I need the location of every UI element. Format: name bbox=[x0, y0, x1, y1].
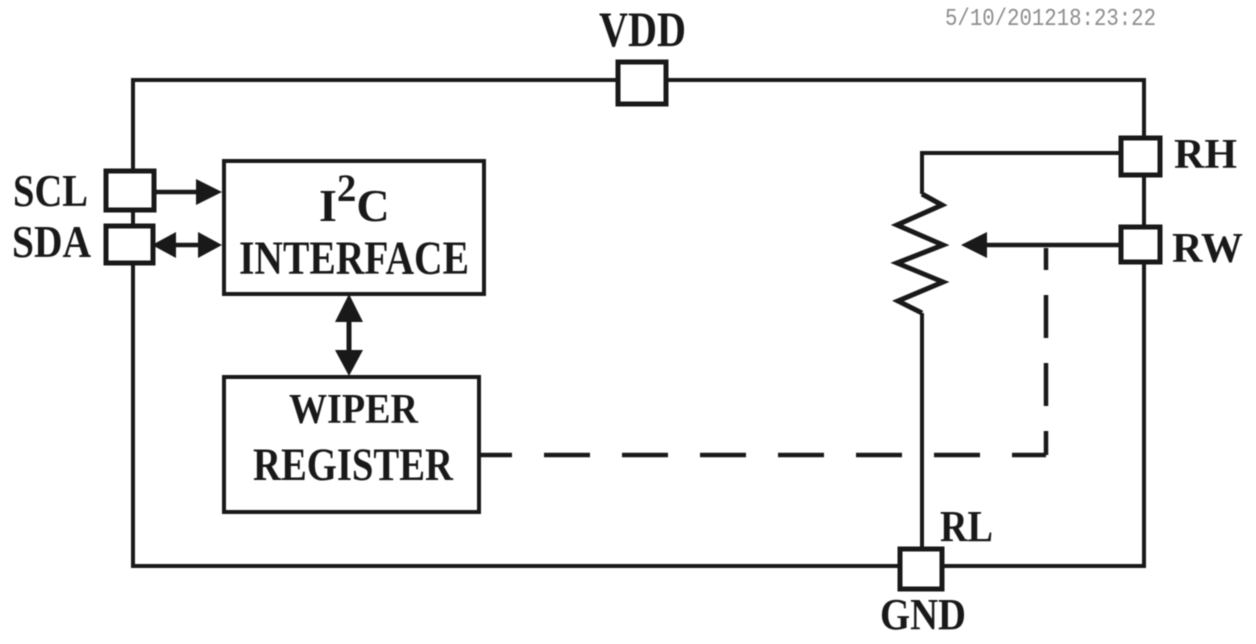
wire: bottom border right of GND pin bbox=[942, 564, 1146, 568]
svg-text:SDA: SDA bbox=[12, 216, 91, 267]
wire: right border below RW pin bbox=[1142, 262, 1146, 566]
wire: dashed control line to wiper (vertical) bbox=[1044, 248, 1049, 455]
svg-text:RH: RH bbox=[1174, 132, 1237, 178]
wire: left border between SCL and SDA pins bbox=[131, 210, 135, 226]
resistor R1 (potentiometer element, zigzag) bbox=[897, 194, 943, 313]
wire: bottom border left of GND pin bbox=[131, 564, 900, 568]
pin VDD (square pad) bbox=[618, 62, 666, 104]
pin GND (square pad) bbox=[900, 549, 942, 589]
wire: I2C interface to wiper register (double arrow) bbox=[347, 312, 352, 358]
wire: RH pin to resistor top bbox=[922, 151, 1121, 155]
wire: resistor top lead bbox=[920, 151, 924, 194]
wire: right border between RH and RW pins bbox=[1142, 175, 1146, 227]
wire: left border above SCL pin bbox=[131, 78, 135, 171]
svg-text:RW: RW bbox=[1172, 226, 1243, 272]
svg-text:GND: GND bbox=[880, 590, 966, 639]
wire: dashed control line from wiper register (horizontal) bbox=[481, 453, 1046, 458]
wire: top border left of VDD pin bbox=[133, 78, 618, 82]
wire: SDA pin to I2C interface (double arrow) bbox=[170, 243, 206, 248]
svg-text:5/10/201218:23:22: 5/10/201218:23:22 bbox=[945, 6, 1156, 33]
wire: resistor bottom lead to GND pin (node RL) bbox=[920, 313, 924, 549]
svg-text:WIPER: WIPER bbox=[289, 387, 419, 433]
svg-text:INTERFACE: INTERFACE bbox=[239, 232, 469, 285]
block U1: I2C interface box bbox=[224, 161, 484, 294]
svg-text:RL: RL bbox=[940, 502, 993, 551]
wire: right border above RH pin bbox=[1142, 78, 1146, 138]
pin RH (square pad) bbox=[1121, 138, 1160, 175]
svg-text:VDD: VDD bbox=[599, 1, 686, 57]
wire: left border below SDA pin bbox=[131, 263, 135, 566]
wire: top border right of VDD pin bbox=[666, 78, 1146, 82]
pin SCL (square pad) bbox=[106, 171, 154, 210]
svg-text:SCL: SCL bbox=[13, 165, 88, 216]
pin RW (square pad) bbox=[1121, 227, 1160, 262]
wire: RW pin to wiper (arrow into resistor) bbox=[984, 243, 1121, 248]
wire: SCL pin to I2C interface (arrow) bbox=[155, 190, 201, 195]
svg-text:REGISTER: REGISTER bbox=[253, 439, 454, 491]
block: wiper register box bbox=[224, 377, 479, 512]
pin SDA (square pad) bbox=[106, 226, 153, 263]
